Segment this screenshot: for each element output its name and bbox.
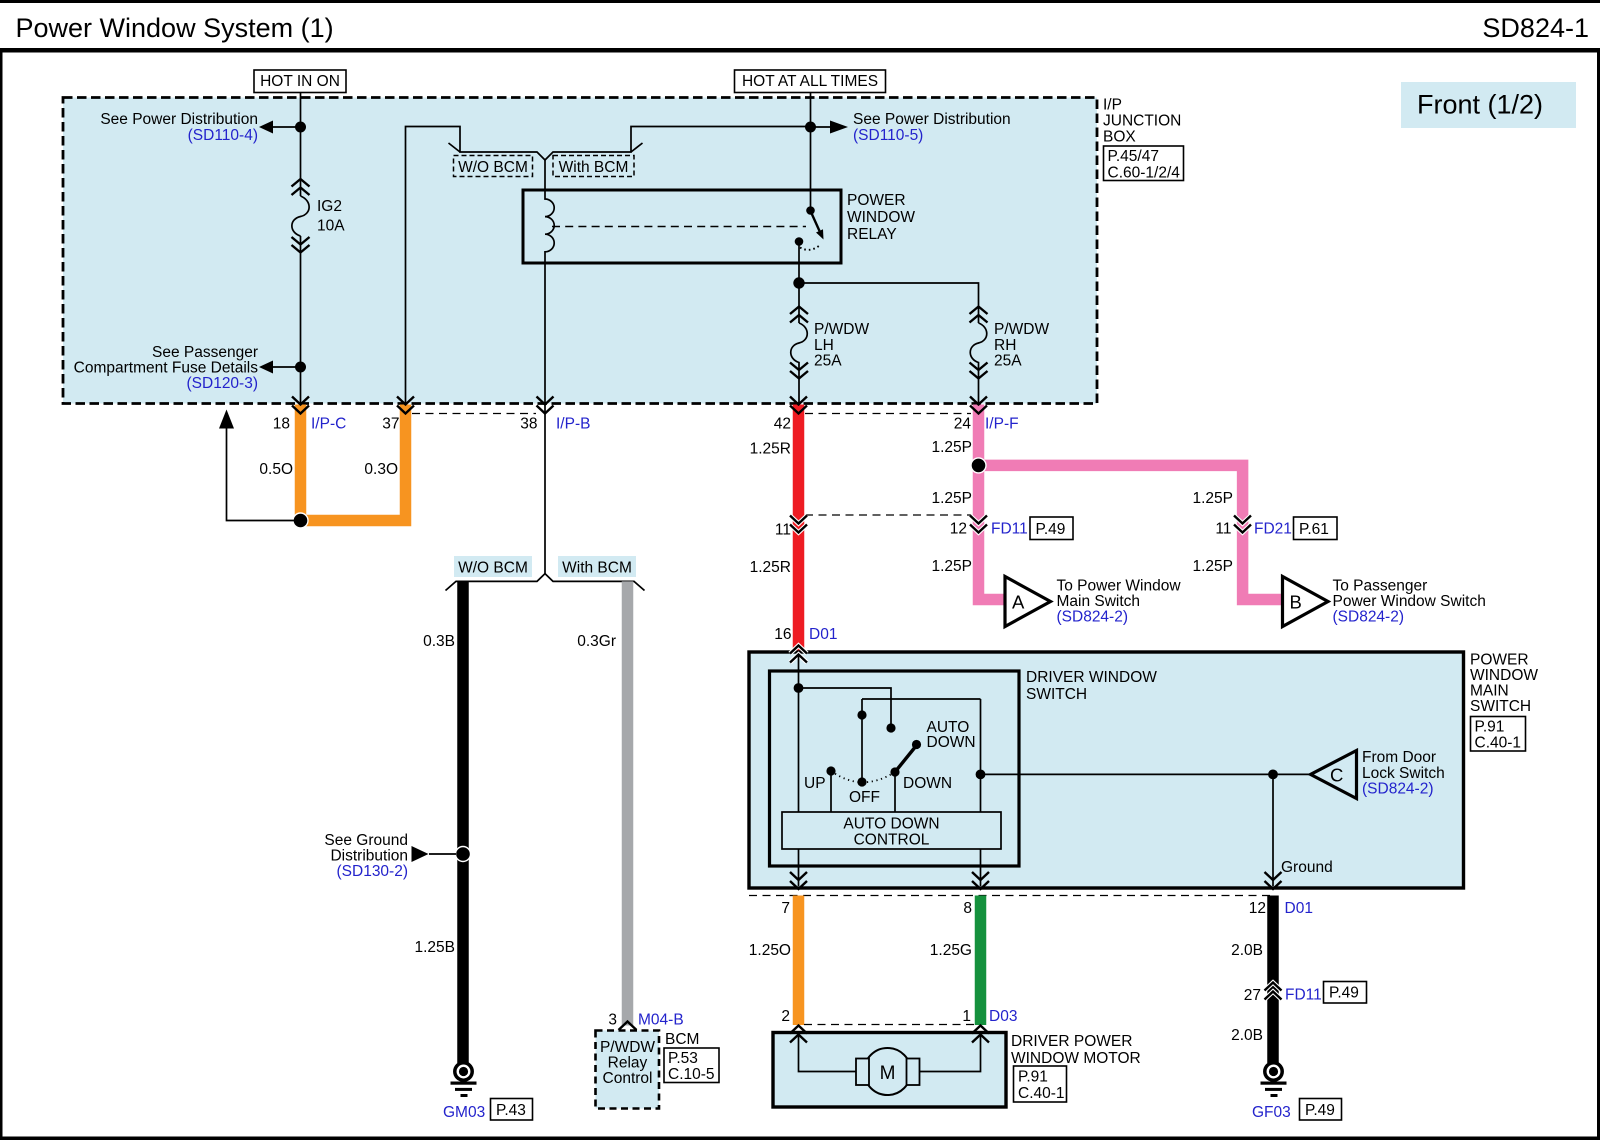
svg-text:(SD110-5): (SD110-5) bbox=[853, 127, 923, 144]
svg-text:11: 11 bbox=[775, 522, 791, 539]
svg-text:1.25R: 1.25R bbox=[750, 559, 791, 576]
svg-text:To Power Window: To Power Window bbox=[1057, 578, 1182, 595]
see power distribution (left) arrow bbox=[272, 126, 301, 128]
svg-text:I/P-F: I/P-F bbox=[985, 416, 1019, 433]
svg-text:See Power Distribution: See Power Distribution bbox=[100, 111, 258, 128]
svg-text:P.49: P.49 bbox=[1329, 985, 1359, 1002]
svg-text:P/WDW: P/WDW bbox=[994, 321, 1049, 338]
relay contact motion dotted arc bbox=[800, 246, 820, 250]
wire With BCM branch (to hot node) bbox=[545, 127, 811, 161]
svg-text:(SD824-2): (SD824-2) bbox=[1333, 609, 1405, 626]
switch common contact bbox=[886, 723, 895, 732]
label AUTO DOWN bbox=[927, 719, 976, 751]
pin 24 chevrons bbox=[970, 397, 987, 414]
svg-text:IG2: IG2 bbox=[317, 198, 342, 215]
fuse IG2 value label bbox=[317, 198, 345, 235]
pin 18 chevrons bbox=[292, 397, 309, 414]
wire OFF line to door-lock line bbox=[862, 698, 981, 700]
svg-text:24: 24 bbox=[954, 416, 972, 433]
BCM ref P.53 C.10-5 bbox=[664, 1048, 719, 1083]
svg-text:P.53: P.53 bbox=[668, 1050, 698, 1067]
svg-text:FD11: FD11 bbox=[1285, 987, 1322, 1004]
see power distribution (right) arrow bbox=[811, 126, 832, 128]
svg-text:P/WDW: P/WDW bbox=[814, 321, 869, 338]
pin 11 chevrons (red) bbox=[790, 516, 807, 533]
wire 1.25R red pin 42 to pin 16 bbox=[793, 405, 805, 652]
pin 2 chevrons (up) bbox=[790, 1026, 807, 1043]
svg-text:3: 3 bbox=[608, 1012, 617, 1029]
svg-text:(SD130-2): (SD130-2) bbox=[337, 863, 409, 880]
svg-text:25A: 25A bbox=[814, 353, 842, 370]
pin 1 chevrons (up) bbox=[972, 1026, 989, 1043]
wire 2.0B black pin 12 to ground GF03 bbox=[1267, 896, 1279, 1064]
node: door-lock line dot bbox=[976, 770, 986, 780]
fuse IG2 squiggle bbox=[292, 196, 309, 236]
svg-text:D01: D01 bbox=[1285, 900, 1313, 917]
wire relay output down bbox=[798, 242, 800, 284]
relay U: power window relay box bbox=[523, 190, 841, 263]
AUTO DOWN contact bbox=[912, 740, 921, 749]
svg-text:0.3Gr: 0.3Gr bbox=[577, 633, 616, 650]
svg-text:38: 38 bbox=[520, 416, 537, 433]
pin 27 chevrons (up) bbox=[1265, 983, 1282, 1000]
svg-text:12: 12 bbox=[950, 521, 967, 538]
svg-text:SD824-1: SD824-1 bbox=[1482, 13, 1589, 43]
OFF contact bbox=[857, 777, 866, 786]
I/P junction box (dashed, light blue) bbox=[63, 98, 1097, 404]
svg-text:HOT AT ALL TIMES: HOT AT ALL TIMES bbox=[742, 73, 878, 90]
svg-text:0.3B: 0.3B bbox=[423, 633, 455, 650]
svg-text:7: 7 bbox=[781, 900, 790, 917]
svg-text:BOX: BOX bbox=[1103, 129, 1136, 146]
svg-text:M: M bbox=[880, 1063, 896, 1084]
svg-text:Lock Switch: Lock Switch bbox=[1362, 765, 1445, 782]
switch wire from pin 16 down bbox=[798, 654, 800, 812]
svg-text:1.25P: 1.25P bbox=[931, 490, 972, 507]
title separator thick line bbox=[0, 48, 1600, 53]
wire W/O BCM branch (to pin 37) bbox=[406, 127, 546, 405]
svg-text:Front (1/2): Front (1/2) bbox=[1417, 90, 1543, 120]
to power window main switch text bbox=[1057, 578, 1182, 626]
svg-text:GF03: GF03 bbox=[1252, 1104, 1291, 1121]
node: ground distribution splice bbox=[456, 847, 471, 862]
motor brushes bbox=[856, 1059, 869, 1086]
svg-text:1.25G: 1.25G bbox=[930, 942, 972, 959]
svg-text:LH: LH bbox=[814, 337, 834, 354]
node: relay output splice bbox=[793, 277, 804, 288]
svg-text:With BCM: With BCM bbox=[559, 159, 629, 176]
I/P junction box ref P.45/47 C.60-1/2/4 bbox=[1104, 146, 1184, 182]
svg-text:DRIVER POWER: DRIVER POWER bbox=[1011, 1033, 1132, 1050]
svg-text:With BCM: With BCM bbox=[562, 560, 632, 577]
svg-text:1.25B: 1.25B bbox=[414, 939, 455, 956]
svg-text:Distribution: Distribution bbox=[330, 848, 408, 865]
svg-text:BCM: BCM bbox=[665, 1031, 699, 1048]
svg-text:P.61: P.61 bbox=[1299, 521, 1329, 538]
FD11 ref P.49 bbox=[1030, 517, 1073, 540]
ground GF03 bbox=[1261, 1063, 1287, 1097]
node: OFF line dot bbox=[857, 710, 866, 719]
svg-text:25A: 25A bbox=[994, 353, 1022, 370]
svg-text:WINDOW: WINDOW bbox=[1470, 667, 1538, 684]
ground GM03 ref P.43 bbox=[491, 1099, 533, 1121]
svg-text:DOWN: DOWN bbox=[903, 775, 952, 792]
svg-text:Power Window System (1): Power Window System (1) bbox=[16, 13, 334, 43]
svg-text:2.0B: 2.0B bbox=[1231, 942, 1263, 959]
main switch ref P.91 C.40-1 bbox=[1471, 717, 1526, 752]
connector D03 dashed link bbox=[804, 1024, 974, 1026]
wire door-lock line drop bbox=[980, 699, 982, 812]
svg-text:FD21: FD21 bbox=[1254, 521, 1292, 538]
connector D01 dashed link bbox=[749, 895, 1273, 897]
pin 8 chevrons bbox=[972, 872, 989, 889]
connector I/P dashed link 42-24 bbox=[805, 413, 971, 415]
switch motion dotted arc UP-OFF-DOWN bbox=[831, 771, 895, 782]
option fork W/O BCM / With BCM bbox=[446, 574, 645, 591]
wire splice to common contact bbox=[799, 688, 892, 728]
svg-text:W/O BCM: W/O BCM bbox=[458, 159, 528, 176]
svg-text:Ground: Ground bbox=[1281, 859, 1333, 876]
svg-text:42: 42 bbox=[774, 416, 791, 433]
Front (1/2) tag bbox=[1401, 82, 1576, 128]
BCM P/WDW relay control box (dashed) bbox=[596, 1031, 660, 1109]
UP contact and wire bbox=[826, 766, 835, 775]
svg-text:16: 16 bbox=[774, 626, 791, 643]
svg-text:WINDOW MOTOR: WINDOW MOTOR bbox=[1011, 1050, 1141, 1067]
ground GM03 bbox=[451, 1063, 477, 1097]
relay coil bbox=[545, 190, 554, 263]
svg-text:I/P: I/P bbox=[1103, 97, 1122, 114]
wire I/P-B pin 38 down to option fork bbox=[544, 263, 546, 574]
svg-text:0.5O: 0.5O bbox=[259, 461, 293, 478]
frame bottom border bbox=[0, 1137, 1600, 1141]
svg-text:RELAY: RELAY bbox=[847, 226, 897, 243]
svg-text:To Passenger: To Passenger bbox=[1333, 578, 1428, 595]
off-page connector C bbox=[1311, 751, 1357, 799]
wire ADC to pin 8 bbox=[980, 849, 982, 886]
wire 1.25P pink pin 24 down to triangle A bbox=[979, 405, 1006, 600]
frame left border bbox=[0, 48, 3, 1140]
wire ground branch down bbox=[1272, 774, 1274, 886]
svg-text:2: 2 bbox=[781, 1008, 790, 1025]
svg-text:DRIVER WINDOW: DRIVER WINDOW bbox=[1026, 669, 1157, 686]
FD21 ref P.61 bbox=[1294, 517, 1338, 540]
svg-text:A: A bbox=[1012, 592, 1025, 613]
pin 3 chevron bbox=[619, 1022, 637, 1031]
see ground distribution text bbox=[324, 832, 408, 880]
pin 12 chevrons bbox=[1265, 872, 1282, 889]
wire ADC to pin 7 bbox=[798, 849, 800, 886]
auto down control box bbox=[782, 812, 1001, 849]
svg-text:(SD824-2): (SD824-2) bbox=[1057, 609, 1129, 626]
motor feed wires bbox=[799, 1034, 858, 1072]
connector I/P dashed link 37-38 bbox=[412, 413, 536, 415]
svg-text:MAIN: MAIN bbox=[1470, 683, 1509, 700]
svg-text:C.40-1: C.40-1 bbox=[1018, 1085, 1065, 1102]
motor ref P.91 C.40-1 bbox=[1014, 1066, 1067, 1102]
svg-text:Control: Control bbox=[603, 1070, 653, 1087]
svg-text:HOT IN ON: HOT IN ON bbox=[260, 73, 340, 90]
label HOT IN ON bbox=[254, 70, 346, 93]
svg-text:C.10-5: C.10-5 bbox=[668, 1066, 715, 1083]
fuse IG2 chevrons bbox=[292, 179, 310, 253]
svg-text:8: 8 bbox=[963, 900, 972, 917]
wire to door lock switch C bbox=[981, 773, 1312, 775]
svg-text:(SD120-3): (SD120-3) bbox=[187, 375, 259, 392]
label POWER WINDOW RELAY bbox=[847, 192, 915, 243]
frame right border bbox=[1597, 48, 1600, 1140]
svg-text:37: 37 bbox=[382, 416, 399, 433]
label With BCM (highlight) bbox=[558, 556, 636, 577]
svg-text:C: C bbox=[1330, 765, 1343, 786]
wire merge to relay coil bbox=[544, 160, 546, 190]
label W/O BCM (highlight) bbox=[454, 556, 532, 577]
svg-text:C.40-1: C.40-1 bbox=[1475, 735, 1522, 752]
pin 7 chevrons bbox=[790, 872, 807, 889]
svg-text:D01: D01 bbox=[809, 626, 837, 643]
relay NO contact bbox=[795, 237, 804, 246]
see ground distribution arrow bbox=[429, 853, 456, 855]
svg-text:WINDOW: WINDOW bbox=[847, 209, 915, 226]
wire HOT AT ALL TIMES vertical bbox=[810, 92, 812, 210]
svg-text:P.45/47: P.45/47 bbox=[1108, 148, 1159, 165]
wire OFF contact drop bbox=[861, 699, 863, 782]
pin 12 chevrons (pink) bbox=[970, 516, 987, 533]
label With BCM (dashed) bbox=[553, 156, 634, 177]
label HOT AT ALL TIMES bbox=[735, 70, 886, 93]
svg-text:11: 11 bbox=[1215, 521, 1231, 538]
svg-text:SWITCH: SWITCH bbox=[1026, 686, 1087, 703]
pin 16 chevrons bbox=[790, 646, 807, 663]
svg-text:Main Switch: Main Switch bbox=[1057, 593, 1141, 610]
svg-text:1.25P: 1.25P bbox=[931, 439, 972, 456]
wire 0.3Gr gray to BCM bbox=[622, 581, 634, 1025]
wire 1.25G green pin 8 to pin 1 bbox=[975, 896, 987, 1026]
svg-text:1.25P: 1.25P bbox=[1192, 490, 1233, 507]
svg-text:P.91: P.91 bbox=[1475, 719, 1505, 736]
off-page connector A bbox=[1005, 577, 1051, 627]
svg-text:UP: UP bbox=[804, 775, 826, 792]
see power distribution (left) text bbox=[100, 111, 258, 144]
I/P JUNCTION BOX name bbox=[1103, 97, 1181, 146]
svg-text:P.91: P.91 bbox=[1018, 1069, 1048, 1086]
svg-text:1.25P: 1.25P bbox=[931, 558, 972, 575]
svg-text:OFF: OFF bbox=[849, 789, 880, 806]
wire 0.5O/0.3O orange loop pins 18-37 bbox=[301, 405, 406, 521]
svg-text:Power Window Switch: Power Window Switch bbox=[1333, 593, 1486, 610]
svg-text:CONTROL: CONTROL bbox=[854, 832, 930, 849]
svg-text:1.25P: 1.25P bbox=[1192, 558, 1233, 575]
fuse P/WDW RH 25A bbox=[970, 306, 1050, 404]
ground GF03 ref P.49 bbox=[1300, 1099, 1342, 1121]
svg-text:P.43: P.43 bbox=[496, 1102, 526, 1119]
svg-text:FD11: FD11 bbox=[991, 521, 1028, 538]
svg-text:M04-B: M04-B bbox=[638, 1012, 684, 1029]
svg-text:2.0B: 2.0B bbox=[1231, 1027, 1263, 1044]
svg-text:SWITCH: SWITCH bbox=[1470, 698, 1531, 715]
label W/O BCM (dashed) bbox=[454, 156, 533, 177]
svg-text:DOWN: DOWN bbox=[927, 734, 976, 751]
svg-text:0.3O: 0.3O bbox=[364, 461, 398, 478]
node: switch input splice bbox=[794, 683, 804, 693]
motor M1: circle bbox=[864, 1048, 911, 1095]
wire 1.25O orange pin 7 to pin 2 bbox=[793, 896, 805, 1026]
svg-text:From Door: From Door bbox=[1362, 749, 1436, 766]
connector FD11 dashed link 11-12 bbox=[805, 514, 972, 516]
svg-text:Relay: Relay bbox=[608, 1055, 648, 1072]
svg-text:See Passenger: See Passenger bbox=[152, 344, 258, 361]
wire 1.25P pink branch to FD21 and triangle B bbox=[979, 465, 1283, 599]
label DRIVER WINDOW SWITCH bbox=[1026, 669, 1157, 703]
pin 42 chevrons bbox=[790, 397, 807, 414]
wire 0.3B/1.25B black to ground bbox=[457, 581, 469, 1063]
wire below fuse IG2 to pin 18 bbox=[300, 236, 302, 404]
svg-text:POWER: POWER bbox=[1470, 652, 1529, 669]
see passenger compartment fuse details text bbox=[74, 344, 259, 392]
power window main switch box bbox=[749, 652, 1464, 888]
svg-text:P/WDW: P/WDW bbox=[600, 1039, 655, 1056]
DOWN contact and wire bbox=[890, 767, 899, 776]
svg-text:I/P-B: I/P-B bbox=[556, 416, 590, 433]
svg-text:18: 18 bbox=[273, 416, 290, 433]
svg-text:B: B bbox=[1290, 592, 1302, 613]
label POWER WINDOW MAIN SWITCH bbox=[1470, 652, 1538, 716]
svg-text:C.60-1/2/4: C.60-1/2/4 bbox=[1108, 165, 1181, 182]
driver window switch inner box bbox=[770, 671, 1020, 866]
pin 11 chevrons (FD21) bbox=[1234, 516, 1251, 533]
wire splice to up-arrow bbox=[227, 428, 301, 521]
node: splice on HOT AT ALL TIMES wire bbox=[805, 122, 816, 133]
switch lever DOWN to AUTO DOWN bbox=[895, 746, 916, 772]
svg-text:27: 27 bbox=[1244, 987, 1261, 1004]
svg-text:GM03: GM03 bbox=[443, 1104, 485, 1121]
frame top border bbox=[0, 0, 1600, 3]
relay internal dashed link bbox=[552, 226, 806, 228]
svg-text:AUTO DOWN: AUTO DOWN bbox=[843, 816, 939, 833]
relay lever bbox=[811, 211, 820, 231]
node: splice on HOT IN ON wire bbox=[295, 122, 306, 133]
svg-text:12: 12 bbox=[1249, 900, 1266, 917]
pin 37 chevrons bbox=[397, 397, 414, 414]
see power distribution (right) text bbox=[853, 111, 1011, 144]
node: ground branch splice bbox=[1268, 770, 1278, 780]
svg-text:D03: D03 bbox=[989, 1008, 1017, 1025]
FD11 ground ref P.49 bbox=[1324, 982, 1367, 1004]
to passenger power window switch text bbox=[1333, 578, 1486, 626]
wire splice to RH fuse bbox=[799, 283, 979, 306]
from door lock switch text bbox=[1362, 749, 1445, 798]
relay common contact bbox=[806, 206, 815, 215]
svg-text:(SD110-4): (SD110-4) bbox=[188, 127, 258, 144]
svg-text:POWER: POWER bbox=[847, 192, 906, 209]
fuse P/WDW LH 25A bbox=[790, 283, 869, 404]
svg-text:(SD824-2): (SD824-2) bbox=[1362, 781, 1434, 798]
svg-text:1.25O: 1.25O bbox=[749, 942, 791, 959]
svg-text:JUNCTION: JUNCTION bbox=[1103, 113, 1181, 130]
svg-text:P.49: P.49 bbox=[1036, 521, 1066, 538]
svg-text:See Ground: See Ground bbox=[324, 832, 408, 849]
label DRIVER POWER WINDOW MOTOR bbox=[1011, 1033, 1141, 1067]
svg-text:1: 1 bbox=[962, 1008, 971, 1025]
svg-text:W/O BCM: W/O BCM bbox=[458, 560, 528, 577]
svg-text:1.25R: 1.25R bbox=[750, 441, 791, 458]
svg-text:See Power Distribution: See Power Distribution bbox=[853, 111, 1011, 128]
svg-text:Compartment Fuse Details: Compartment Fuse Details bbox=[74, 360, 259, 377]
svg-text:I/P-C: I/P-C bbox=[311, 416, 346, 433]
svg-text:RH: RH bbox=[994, 337, 1016, 354]
driver power window motor box bbox=[773, 1033, 1006, 1108]
node: splice orange loop bbox=[293, 513, 308, 528]
svg-text:P.49: P.49 bbox=[1305, 1102, 1335, 1119]
svg-text:10A: 10A bbox=[317, 218, 345, 235]
wire HOT IN ON vertical upper bbox=[300, 92, 302, 196]
node: pink splice bbox=[971, 458, 986, 473]
pin 38 chevrons bbox=[537, 397, 554, 414]
see passenger compartment fuse details arrow bbox=[295, 362, 306, 373]
off-page connector B bbox=[1283, 577, 1329, 627]
